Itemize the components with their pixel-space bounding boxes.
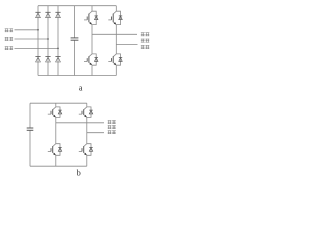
wire: output line V (b): [87, 132, 104, 134]
wire: rectifier leg 1: [37, 6, 39, 76]
svg-text:b: b: [77, 169, 81, 178]
transistor V7: [48, 144, 62, 156]
diode upper leg1: [35, 12, 40, 17]
capacitor C1: [71, 38, 79, 40]
transistor V5: [48, 107, 62, 118]
diode lower leg1: [35, 57, 40, 62]
wire: DC-link capacitor branch (a): [74, 6, 76, 38]
diode upper leg2: [45, 12, 50, 17]
wire: output line V (a): [116, 44, 137, 46]
wire: phase B input: [15, 38, 49, 40]
junction: phase B to leg2: [47, 38, 49, 40]
wire: diagram a bottom DC bus: [38, 75, 116, 77]
wire: phase A input: [15, 29, 39, 31]
transistor V8: [79, 144, 93, 156]
transistor V2: [108, 11, 122, 24]
wire: DC source capacitor branch (b): [29, 103, 31, 128]
transistor V3: [84, 54, 98, 65]
label: unit output single-phase (Chinese, a): [141, 32, 150, 49]
wire: phase C input: [15, 47, 59, 49]
wire: diagram a top DC bus: [38, 5, 116, 7]
wire: diagram b bottom DC bus: [30, 165, 87, 167]
wire: output line U (a): [92, 33, 137, 35]
wire: output line U (b): [56, 122, 104, 124]
wire: H-bridge right leg (b): [86, 103, 88, 107]
diode lower leg2: [45, 57, 50, 62]
capacitor C2: [27, 128, 34, 130]
wire: H-bridge right leg (a): [115, 6, 117, 12]
label: unit input three-phase (Chinese): [5, 29, 13, 51]
wire: rectifier leg 3: [57, 6, 59, 76]
transistor V6: [79, 107, 93, 118]
wire: H-bridge left leg (b): [55, 103, 57, 107]
wire: diagram b top DC bus: [30, 102, 87, 104]
label: unit output single-phase (Chinese, b): [108, 120, 116, 134]
junction: phase A to leg1: [37, 29, 39, 31]
wire: rectifier leg 2: [47, 6, 49, 76]
transistor V1: [84, 11, 98, 24]
wire: H-bridge left leg (a): [91, 6, 93, 12]
junction: phase C to leg3: [57, 48, 59, 50]
transistor V4: [108, 54, 122, 65]
diode lower leg3: [55, 57, 60, 62]
diode upper leg3: [55, 12, 60, 17]
svg-text:a: a: [79, 84, 83, 93]
